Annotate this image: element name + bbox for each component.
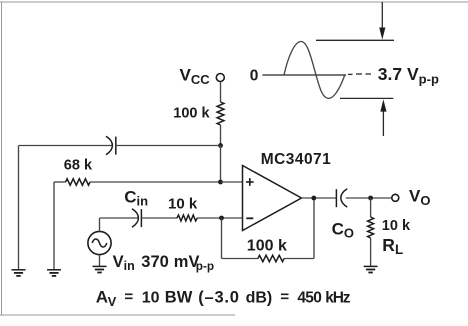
- op-amp U1 MC34071: [243, 166, 302, 231]
- wire RL to ground: [370, 238, 372, 266]
- svg-text:V: V: [113, 253, 124, 271]
- wire Cin to resistor 10k: [141, 217, 177, 219]
- wire rail2 to resistor 68k: [54, 181, 66, 183]
- wire VCC to resistor: [220, 82, 222, 102]
- resistor 100 k (bias from VCC): [217, 102, 224, 125]
- svg-text:0: 0: [250, 68, 259, 85]
- node C junction dot: [219, 216, 224, 221]
- svg-text:kHz: kHz: [325, 290, 351, 307]
- gain and bandwidth note: [96, 288, 351, 309]
- resistor 68 k: [66, 179, 90, 185]
- wire node A to node B: [220, 146, 222, 183]
- svg-text:10: 10: [142, 290, 160, 307]
- wire left rail down: [18, 146, 20, 270]
- wire feedback resistor to corner: [284, 258, 314, 260]
- ground (source): [93, 266, 107, 272]
- waveform lower peak reference line: [340, 97, 393, 99]
- svg-text:A: A: [96, 288, 108, 307]
- capacitor Cin: [132, 209, 141, 227]
- ground (left rail): [12, 270, 26, 276]
- svg-text:in: in: [124, 259, 135, 273]
- svg-text:MC34071: MC34071: [261, 151, 331, 168]
- svg-text:dB): dB): [246, 290, 273, 307]
- svg-text:V: V: [108, 294, 117, 309]
- svg-text:68 k: 68 k: [64, 158, 93, 174]
- wire node C down: [221, 218, 223, 259]
- output node junction dot: [311, 196, 316, 201]
- svg-text:100 k: 100 k: [173, 106, 210, 122]
- wire op-amp output: [302, 197, 337, 199]
- VO terminal: [392, 194, 399, 201]
- resistor RL 10 k: [368, 217, 374, 238]
- wire source corner to capacitor Cin: [100, 217, 139, 219]
- waveform upper peak reference line: [316, 39, 394, 41]
- svg-text:10 k: 10 k: [168, 196, 198, 213]
- svg-text:450: 450: [297, 290, 321, 307]
- svg-text:=: =: [280, 289, 289, 306]
- op-amp - pin mark: [246, 217, 253, 219]
- waveform bottom arrow: [380, 99, 386, 136]
- svg-text:370: 370: [141, 253, 169, 271]
- wire capacitor to node A: [116, 145, 221, 147]
- VCC terminal: [216, 74, 224, 82]
- waveform zero axis: [262, 74, 371, 75]
- wire source top up: [99, 218, 101, 231]
- op-amp + pin mark: [246, 178, 254, 186]
- waveform sine wave: [284, 42, 345, 99]
- svg-text:10 k: 10 k: [382, 218, 411, 234]
- resistor 10 k (input): [177, 215, 197, 221]
- svg-text:BW: BW: [165, 289, 193, 307]
- svg-text:100 k: 100 k: [247, 238, 287, 255]
- wire node B to op-amp + input: [221, 181, 243, 183]
- wire node A left to capacitor: [19, 145, 112, 147]
- ground (RL): [364, 266, 378, 272]
- node A junction dot: [218, 143, 223, 148]
- resistor 100 k (feedback): [258, 255, 284, 261]
- ground (rail2): [47, 270, 61, 276]
- wire to feedback resistor: [222, 258, 259, 260]
- wire CO to VO terminal: [346, 197, 392, 199]
- node D junction dot: [368, 196, 373, 201]
- wire node D to RL: [370, 198, 372, 217]
- wire resistor 68k to node B: [90, 181, 221, 183]
- wire source bottom to ground: [99, 255, 101, 266]
- svg-text:p-p: p-p: [196, 259, 214, 273]
- wire resistor to node A: [220, 125, 222, 146]
- node B junction dot: [218, 180, 223, 185]
- AC source Vin: [88, 231, 111, 254]
- wire rail2 down: [53, 182, 55, 270]
- capacitor (bypass, left): [106, 136, 116, 154]
- svg-text:=: =: [124, 289, 133, 306]
- waveform top arrow: [379, 2, 385, 40]
- wire resistor 10k to node C: [197, 217, 242, 219]
- svg-text:(–3.0: (–3.0: [198, 289, 239, 307]
- capacitor CO: [336, 189, 347, 208]
- wire feedback up to output node: [313, 198, 315, 259]
